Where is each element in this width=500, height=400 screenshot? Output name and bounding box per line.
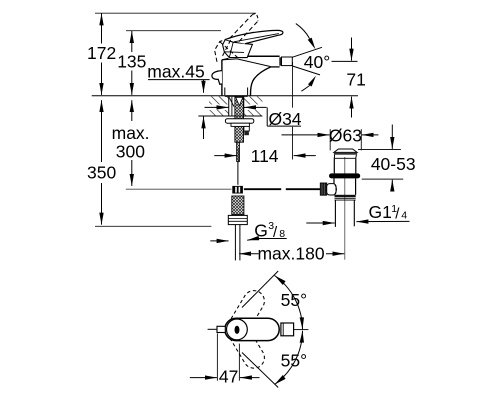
shank threaded tail xyxy=(237,142,240,161)
55deg label lower xyxy=(281,350,307,370)
faucet body top-left ledge xyxy=(222,58,229,59)
svg-text:172: 172 xyxy=(87,43,116,63)
svg-text:114: 114 xyxy=(251,146,279,166)
pivot circle xyxy=(227,319,248,340)
dashed raised knuckle xyxy=(215,39,238,62)
rod connector xyxy=(327,184,337,195)
hook tab xyxy=(244,126,249,135)
svg-text:max.180: max.180 xyxy=(257,243,324,263)
spout top edge xyxy=(239,55,280,57)
connection nut xyxy=(228,215,247,224)
aerator dark band xyxy=(279,57,281,65)
svg-text:40°: 40° xyxy=(304,52,330,72)
aerator top view xyxy=(281,323,294,336)
spray cone lower line xyxy=(293,66,321,75)
dimension 114 xyxy=(214,62,315,166)
svg-text:71: 71 xyxy=(346,69,365,89)
drain plug cap xyxy=(334,149,357,155)
extension line max.300 bottom xyxy=(126,188,232,190)
hole wall right xyxy=(243,96,245,116)
dimension dia34 xyxy=(205,107,303,128)
dimension 350 xyxy=(87,100,116,224)
dimension max.180 xyxy=(239,243,344,263)
dimension 135 xyxy=(117,31,146,95)
flexible hoses xyxy=(235,225,240,261)
faucet base inner flange lines xyxy=(225,88,248,96)
top view centerline right xyxy=(294,329,309,331)
mounting nut plate xyxy=(231,123,249,126)
drain neck xyxy=(334,155,356,159)
extension line 350 bottom xyxy=(95,225,211,227)
svg-text:max.: max. xyxy=(112,123,150,143)
dimension dia63 xyxy=(282,126,379,151)
dimension G3/8 xyxy=(210,220,286,241)
counter hatch left block xyxy=(209,96,229,116)
svg-text:135: 135 xyxy=(117,52,146,72)
svg-text:Ø34: Ø34 xyxy=(268,109,301,129)
pull rod lower xyxy=(237,162,239,185)
faucet front curve xyxy=(250,67,270,96)
55deg label upper xyxy=(281,290,307,310)
pop-up rod in hole xyxy=(229,97,234,116)
lever tip rectangle xyxy=(217,326,225,332)
drain bottom band xyxy=(335,195,356,200)
extension line top 172 level xyxy=(95,12,256,14)
rod tee coupling xyxy=(232,186,243,194)
55deg arc lower xyxy=(275,331,305,385)
svg-text:40-53: 40-53 xyxy=(371,154,416,174)
dimension G1 1/4 xyxy=(306,202,409,223)
dimension 40deg text xyxy=(304,52,330,72)
svg-text:4: 4 xyxy=(401,210,407,222)
spout underside xyxy=(271,66,280,68)
dashed handle position upper xyxy=(222,287,268,344)
dimension 71 xyxy=(332,38,366,118)
white halo for dia34 arrows xyxy=(206,104,263,110)
drain upper body xyxy=(334,158,356,173)
spout crease line xyxy=(222,59,271,67)
40deg arc arrow lower xyxy=(301,76,316,92)
counter hatch right block xyxy=(244,96,263,116)
dimension 172 xyxy=(87,13,116,95)
svg-text:300: 300 xyxy=(116,142,145,162)
rod knurled knob xyxy=(320,183,326,195)
55deg side line upper xyxy=(242,271,278,308)
pop-up knob on body xyxy=(212,71,222,85)
horizontal transfer rod xyxy=(244,188,320,190)
extension line 135 level xyxy=(126,30,221,32)
aerator block xyxy=(282,57,293,66)
drain lower body xyxy=(334,178,356,194)
svg-text:55°: 55° xyxy=(281,290,307,310)
svg-text:8: 8 xyxy=(279,228,285,240)
faucet base dark band xyxy=(225,95,248,97)
horseshoe washer xyxy=(225,119,253,124)
threaded shank xyxy=(235,97,244,142)
faucet body left edge xyxy=(221,60,223,96)
svg-text:55°: 55° xyxy=(281,350,307,370)
dimension max.300 xyxy=(112,100,150,186)
55deg side line lower xyxy=(242,353,278,388)
dashed handle position lower xyxy=(222,315,268,372)
top view centerline left stub xyxy=(208,328,217,330)
40deg arc arrow upper xyxy=(296,24,316,50)
hole wall left xyxy=(228,96,230,116)
svg-text:G1: G1 xyxy=(369,202,392,222)
svg-text:350: 350 xyxy=(87,163,116,183)
faucet body top view capsule xyxy=(225,318,279,340)
dimension max.45 xyxy=(147,62,209,140)
drain centerline xyxy=(344,157,346,260)
counter top line xyxy=(92,95,358,97)
dimension 47 xyxy=(190,366,260,386)
lever arm xyxy=(225,30,283,43)
svg-text:Ø63: Ø63 xyxy=(329,126,362,146)
dimension 40-53 xyxy=(358,125,416,191)
drain seal ring xyxy=(329,173,360,178)
55deg arc upper xyxy=(275,276,305,330)
spray cone upper line xyxy=(293,47,323,57)
tailpipe xyxy=(335,200,354,227)
counter bottom line xyxy=(198,115,262,117)
top view: 47 extension lines xyxy=(217,333,239,380)
lever knuckle xyxy=(223,40,253,58)
svg-text:47: 47 xyxy=(219,366,238,386)
svg-text:G: G xyxy=(254,221,268,241)
svg-text:max.45: max.45 xyxy=(147,62,204,82)
pivot dark mark xyxy=(235,326,240,334)
G3/8 nipple crosshatch xyxy=(232,196,244,215)
dashed raised lever lines xyxy=(230,14,259,42)
